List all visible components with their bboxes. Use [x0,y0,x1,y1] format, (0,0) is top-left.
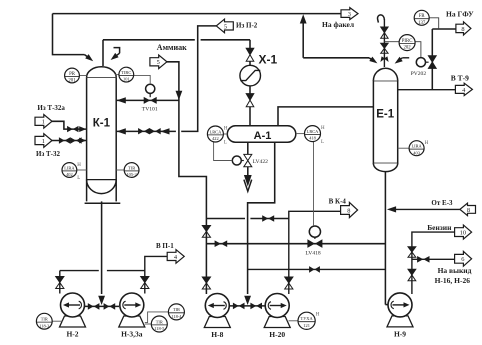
svg-text:LRCA: LRCA [210,129,223,134]
wire: branch riser x=303 to flare header with up arrow [303,23,372,61]
svg-text:Из П-2: Из П-2 [236,21,258,29]
column K-1 [85,67,121,203]
valve on P-2 feed (right) [149,128,160,134]
control valve LV422 [232,154,252,166]
svg-text:1: 1 [42,119,45,126]
svg-text:118-3: 118-3 [39,323,50,328]
svg-text:LIRA: LIRA [64,165,75,170]
label Ammiak [157,43,187,52]
flag 4 V P-1 [167,250,184,264]
svg-text:LIRA: LIRA [411,144,422,149]
svg-text:5: 5 [157,59,160,66]
instrument bubble LIRA-402 [62,163,81,181]
wire: E-1 bottoms downcomer to H-9 [385,171,388,305]
wire: LRCA-418 tap and signal to LV418 [296,134,314,226]
arrow into E-1 dome (left nozzle) [369,57,377,64]
pump N-9 [387,293,413,339]
valve on y=269.4 line [309,266,320,273]
svg-text:8: 8 [347,207,350,214]
wire: K-1 bottoms line down to pump suction junction [101,194,103,295]
valve on H-9 riser (upper) [408,247,416,257]
svg-text:403: 403 [413,150,420,155]
wire: H-2 discharge riser [59,271,61,294]
instrument bubble TIR-118-5 [151,316,167,332]
drum A-1 [227,126,295,142]
arrow on P-2 feed line [160,128,169,134]
control valve LV418 [307,226,322,248]
label Ot E-3 [431,199,453,207]
svg-text:В П-1: В П-1 [156,242,174,250]
control valve PV202 [416,56,436,69]
arrow into K-1 at T-32 feed [79,138,86,144]
instrument bubble TUHA-121 [298,312,320,329]
svg-text:На факел: На факел [322,20,355,29]
arrow into downcomer from Ot E-3 [387,206,396,212]
svg-text:118-4: 118-4 [171,314,182,319]
wire: TIR-118-3 tap [52,320,62,322]
svg-text:На ГФУ: На ГФУ [446,10,474,19]
wire: K-1 overhead header y=39.8 to condenser X-1 (gap hop at P-2 riser) [103,40,250,66]
svg-text:Бензин: Бензин [427,223,452,232]
svg-text:402: 402 [66,172,73,177]
svg-text:TV101: TV101 [142,107,158,113]
svg-text:H: H [321,126,325,131]
svg-text:8: 8 [467,207,470,214]
svg-text:H: H [224,127,228,132]
check valve on H-2 discharge [56,277,64,289]
svg-text:422: 422 [212,136,219,141]
flag 6 Na vykid [455,251,472,266]
instrument bubble LRCA-418 [305,126,326,146]
svg-text:Н-8: Н-8 [211,330,223,339]
svg-text:TIR: TIR [156,319,163,324]
svg-text:От Е-3: От Е-3 [431,199,453,207]
arrow into K-1 at TV101 feed [117,97,126,103]
instrument bubble PR-201 [65,68,80,84]
arrow into E-1 dome (right nozzle) [395,57,403,64]
svg-text:Н-3,3а: Н-3,3а [121,330,143,339]
flag 10 Benzin [455,225,472,239]
svg-text:418: 418 [309,136,316,141]
wire: flare header y=13.6 from K-1 overhead to flare flag [53,13,342,15]
valve on E-1 vent (lower) [381,43,388,53]
instrument bubble LIRA-403 [409,141,429,156]
flag 1 Iz T-32 [35,134,52,148]
valve on T-32 feed (right) [70,137,81,143]
svg-text:121: 121 [303,323,310,328]
valve on H-9 riser (lower) [408,269,416,281]
wire: stub into E-1 dome right nozzle [398,58,409,61]
arrow into K-1 dome (right nozzle) [111,53,119,60]
arrow into K-1 at T-32a feed [79,126,86,132]
wire: Iz T-32 feed into K-1 [51,140,87,142]
label E-1 [376,108,395,120]
svg-text:PR: PR [69,72,76,77]
valve below X-1 [246,94,254,107]
svg-text:На выкид: На выкид [438,266,472,275]
arrow into E-1 dome (center-left) [380,56,385,62]
wire: A-1 bottom nozzle to LV422 [247,142,249,154]
wire: discharge header y=270.6 (gap hop over bottoms line) [60,270,145,272]
svg-text:LRCA: LRCA [307,129,320,134]
valve left of H-8/H-20 junction [233,303,245,310]
label LV418 [305,251,321,257]
wire: pump suction header between H-2 and H-3,3a [85,305,120,307]
wire: TIRC-101 signal to TV101 [115,75,150,85]
wire: LV422 outlet arrow onto pump feed line [244,167,252,192]
wire: pump suction header between H-8 and H-20 [229,305,267,307]
svg-text:H: H [425,141,429,146]
wire: LIRA-403 tap [398,147,409,149]
svg-text:Из Т-32а: Из Т-32а [37,104,65,112]
svg-text:1: 1 [42,138,45,145]
label V P-1 [156,242,174,250]
instrument bubble LRCA-422 [207,126,228,146]
label Iz T-32a [37,104,65,112]
svg-text:Аммиак: Аммиак [157,43,187,52]
svg-text:201: 201 [68,79,76,84]
svg-text:H: H [77,163,81,168]
check valve on H-20 discharge [285,277,293,289]
instrument bubble TIRC-101 [119,67,134,82]
arrow into K-1 dome (left nozzle) [85,54,93,61]
condenser X-1 [240,65,261,86]
svg-text:101: 101 [123,77,130,82]
flag 8 V K-4 [341,202,358,217]
arrow into K-1 at P-2 feed [117,128,126,134]
svg-text:10: 10 [460,230,466,237]
svg-text:PV202: PV202 [411,71,427,77]
wire: ammonia line from flag down to TV101 junction and on down to H-8 riser [166,62,206,294]
instrument bubble TIR-118-4 [168,304,184,320]
label Iz T-32 [36,150,61,158]
flag 5 ammonia [150,55,167,69]
check valve on H-8 discharge riser [202,277,210,289]
svg-text:L: L [321,140,324,145]
instrument bubble PIRC-202 [399,35,415,51]
wire: A-1 bottoms via right nozzle down to H-8/H-20 suction [248,142,275,294]
svg-text:Н-2: Н-2 [66,330,78,339]
svg-text:118-5: 118-5 [154,326,165,331]
svg-text:Н-9: Н-9 [394,329,406,338]
svg-text:L: L [224,141,227,146]
flag 8 Na GFU [456,22,471,35]
arrow down at H-2/H-3,3a suction junction [98,296,105,305]
label Benzin [427,223,452,232]
flag 3 Na fakel [341,8,358,20]
label PV202 [411,71,427,77]
svg-text:TIR: TIR [41,317,48,322]
wire: Ot E-3 line [395,208,460,210]
label LV422 [253,159,269,165]
flag 1 Iz T-32a [35,115,52,129]
valve right of suction junction [104,303,116,310]
label TV101 [142,107,158,113]
svg-text:Н-20: Н-20 [269,330,285,339]
valve on H-8 discharge riser [202,226,210,238]
wire: E-1 vent riser with swan-neck [378,15,385,67]
arrow into E-1 dome (center-right) [384,56,389,62]
wire: line from A-1 bottoms line to E-1 downcomer y=269.4 [248,268,386,270]
arrow up into flare header [300,14,307,23]
wire: H-20 discharge riser and V K-4 header [289,211,341,294]
wire: PR-201 tap [79,75,86,77]
valve on LV418 line [215,240,228,247]
svg-text:В Т-9: В Т-9 [451,73,469,82]
wire: TIR-118-5 tap [145,323,152,325]
wire: TV101 feed line into K-1 [117,99,179,101]
svg-text:L: L [77,176,80,181]
check valve on H-3,3a discharge [141,277,149,289]
wire: LIRA-402 tap [77,169,87,171]
flag 5 Iz P-2 [216,19,233,33]
instrument bubble TIR-105-2 [124,163,139,178]
svg-text:А-1: А-1 [254,130,272,142]
wire: TIR-105-2 tap [116,169,124,171]
wire: Iz T-32a feed into K-1 [51,121,87,129]
wire: Na GFU line from PV202 riser [432,29,456,90]
pump N-2 [60,293,86,339]
svg-text:TIRC: TIRC [121,70,131,75]
wire: V T-9 line from E-1 [398,89,456,91]
wire: X-1 to A-1 connector [249,61,251,126]
wire: signal PIRC-202 to PV202 [384,42,421,58]
wire: Iz P-2 line down and into K-1 (gap hop at ammonia riser) [117,26,217,131]
svg-text:5: 5 [224,23,227,30]
svg-text:Х-1: Х-1 [259,52,278,66]
label Iz P-2 [236,21,258,29]
valve on E-1 vent (upper) [381,27,388,38]
svg-text:Н-16, Н-26: Н-16, Н-26 [435,276,471,285]
svg-text:Из Т-32: Из Т-32 [36,150,61,158]
svg-text:105-2: 105-2 [126,172,136,177]
svg-text:В К-4: В К-4 [329,198,347,206]
wire: K-1 overhead line down-left elbow into K-1 dome [53,14,90,59]
svg-text:8: 8 [461,26,464,33]
wire: TUHA-121 tap [289,320,299,322]
svg-text:LV422: LV422 [253,159,269,165]
svg-text:PIRC: PIRC [402,39,413,44]
control valve TV101 [144,84,157,104]
svg-text:TIR: TIR [128,165,135,170]
wire: H-3,3a discharge riser up to V P-1 flag [145,256,167,293]
valve left of suction junction [88,303,100,310]
label V T-9 [451,73,469,82]
svg-text:TIR: TIR [173,307,180,312]
svg-text:LV418: LV418 [305,251,321,257]
svg-text:FR: FR [419,14,426,19]
arrow down at H-8/H-20 suction junction [244,296,251,305]
wire: LRCA-422 tap and signal to LV422 [214,134,233,161]
arrow down on ammonia line at TV101 junction [176,91,183,100]
valve on T-32 feed (left) [59,137,70,143]
instrument bubble TIR-118-3 [36,313,52,329]
valve on P-2 feed (left) [138,128,149,134]
label Na fakel [322,20,355,29]
wire: line from H-8 riser to E-1 downcomer via LV418 [206,243,385,245]
wire: K-1 dome right vent stub [114,48,120,57]
label Na vykid [438,266,472,275]
wire: A-1 overhead to E-1 feed [278,107,373,126]
valve above X-1 [246,48,254,61]
flag 8 Ot E-3 [460,203,476,215]
wire: signal FR-137 [429,18,439,29]
svg-text:6: 6 [461,256,464,263]
valve on V K-4 branch [262,215,274,222]
svg-text:H: H [316,313,320,318]
svg-text:3: 3 [348,11,351,18]
svg-text:137: 137 [418,21,426,26]
label N-16 N-26 [435,276,471,285]
valve on T-32a feed [67,126,78,132]
pump N-20 [264,294,290,340]
pump N-3,3a [119,293,145,339]
label X-1 [259,52,278,66]
wire: H-9 discharge riser and benzin line [412,232,455,294]
label A-1 [254,130,272,142]
label V K-4 [329,198,347,206]
valve right of H-8/H-20 junction [250,303,262,310]
column E-1 [373,68,397,171]
label K-1 [93,118,111,130]
label Na GFU [446,10,474,19]
valve on Na vykid branch [417,256,429,263]
instrument bubble FR-137 [414,10,429,26]
wire: TIR-118-4 tap [145,312,169,323]
svg-text:К-1: К-1 [93,118,111,130]
svg-text:Е-1: Е-1 [376,108,395,120]
svg-text:ТУХА: ТУХА [301,316,314,321]
pump N-8 [204,294,230,340]
wire: branch to Na vykid flag [412,258,455,260]
svg-text:202: 202 [403,46,411,51]
flag 4 V T-9 [455,83,472,95]
wire: V K-4 branch line (gap hop at A-1 bottoms line) [206,218,288,220]
